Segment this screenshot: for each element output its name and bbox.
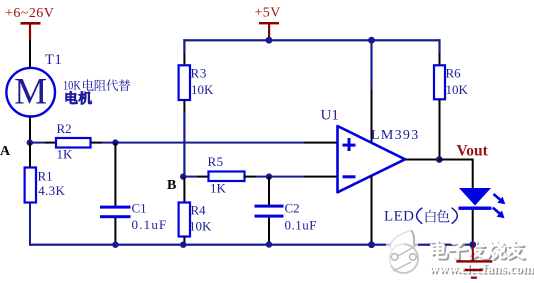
LED cathode bar	[459, 207, 492, 210]
svg-text:C1: C1	[132, 201, 147, 216]
svg-text:R2: R2	[57, 121, 72, 136]
resistor R6 body	[434, 65, 445, 99]
junction dot R4 bottom	[180, 242, 186, 248]
junction dot Vout	[436, 156, 443, 163]
node A junction dot	[27, 139, 33, 145]
junction dot C2 top	[266, 173, 272, 179]
svg-text:C2: C2	[285, 201, 300, 216]
wire LED bottom lead	[472, 210, 474, 245]
wire R3 top lead	[183, 39, 185, 66]
wire junction to op-amp + input	[115, 142, 338, 144]
svg-text:+6~26V: +6~26V	[5, 6, 54, 21]
junction dot C1 bottom	[112, 242, 118, 248]
svg-text:1K: 1K	[210, 181, 227, 196]
wire B to R5	[183, 176, 208, 178]
label 10K电阻代替	[63, 78, 130, 93]
power +6~26V bar symbol	[21, 22, 41, 41]
wire R2 to junction	[91, 142, 116, 144]
wire A to R2	[30, 142, 55, 144]
svg-text:A: A	[0, 144, 11, 159]
svg-text:0.1uF: 0.1uF	[132, 217, 168, 232]
resistor R2 body	[56, 138, 91, 148]
wire R6 top lead	[438, 39, 440, 66]
capacitor C2 plates	[255, 205, 284, 218]
resistor R1 body	[25, 168, 36, 203]
svg-text:R6: R6	[446, 66, 462, 81]
LED light arrow 2	[493, 208, 505, 219]
wire C1 bottom lead	[114, 218, 116, 245]
svg-text:10K: 10K	[189, 219, 212, 234]
wire junction to op-amp - input	[269, 176, 338, 178]
svg-text:T1: T1	[45, 52, 62, 68]
resistor R4 body	[179, 203, 190, 237]
wire R3 bottom to node B	[183, 100, 185, 177]
svg-text:LED: LED	[384, 209, 414, 225]
capacitor C1 plates	[100, 206, 131, 219]
wire R1 to bottom rail	[29, 203, 31, 245]
wire A to R1	[29, 143, 31, 168]
wire op-amp output	[405, 159, 439, 161]
wire +5V top rail	[183, 39, 440, 41]
op-amp + input symbol	[343, 138, 356, 151]
LED light arrow 1	[494, 194, 506, 204]
wire R5 to junction	[245, 176, 270, 178]
wire C2 top lead	[268, 177, 270, 205]
svg-text:1K: 1K	[57, 147, 74, 162]
wire B to R4	[183, 177, 185, 203]
op-amp V- power pin	[371, 176, 373, 244]
junction dot C2 bottom	[266, 241, 272, 247]
resistor R5 body	[209, 172, 245, 182]
wire C1 top lead	[114, 143, 116, 206]
watermark www.elecfans.com	[429, 261, 534, 277]
ground symbol	[456, 244, 492, 279]
wire bottom ground rail	[29, 244, 474, 246]
motor T1 circle	[6, 68, 55, 117]
wire R6 bottom lead	[439, 99, 441, 159]
svg-text:LM393: LM393	[371, 128, 420, 143]
power +5V bar symbol	[259, 22, 279, 40]
node B junction dot	[180, 173, 186, 179]
svg-text:B: B	[167, 178, 176, 193]
wire C2 bottom lead	[268, 218, 270, 245]
svg-text:www.elecfans.com: www.elecfans.com	[429, 261, 534, 276]
watermark 电子发烧友	[431, 241, 526, 261]
wire motor bottom lead	[29, 117, 31, 143]
svg-text:10K: 10K	[446, 82, 469, 97]
watermark logo	[386, 230, 418, 273]
svg-text:U1: U1	[321, 108, 339, 124]
svg-text:R3: R3	[191, 66, 208, 81]
label LED（白色）	[384, 208, 457, 225]
svg-text:10K: 10K	[63, 78, 81, 93]
svg-text:4.3K: 4.3K	[38, 183, 65, 198]
svg-text:0.1uF: 0.1uF	[285, 218, 317, 233]
svg-text:10K: 10K	[191, 82, 214, 97]
op-amp - input symbol	[343, 175, 356, 178]
svg-text:M: M	[14, 72, 47, 113]
wire R4 bottom lead	[183, 237, 185, 246]
svg-text:Vout: Vout	[457, 143, 489, 160]
LED D1 triangle	[459, 188, 491, 206]
junction dot LED bottom	[469, 241, 476, 248]
junction dot V- on bottom rail	[368, 241, 375, 248]
junction dot +5V on rail	[266, 37, 273, 44]
resistor R3 body	[179, 65, 190, 100]
svg-text:R4: R4	[191, 203, 207, 218]
junction dot C1 top	[112, 139, 118, 145]
label 电机 (bold)	[66, 92, 92, 105]
wire motor top lead	[29, 41, 31, 69]
op-amp U1 V+ power pin	[370, 40, 372, 142]
svg-text:R1: R1	[38, 169, 53, 184]
svg-text:+5V: +5V	[255, 6, 281, 21]
op-amp U1 triangle	[338, 126, 406, 192]
svg-text:R5: R5	[208, 154, 224, 169]
junction dot V+ on rail	[368, 37, 375, 44]
wire output to LED	[439, 160, 473, 189]
